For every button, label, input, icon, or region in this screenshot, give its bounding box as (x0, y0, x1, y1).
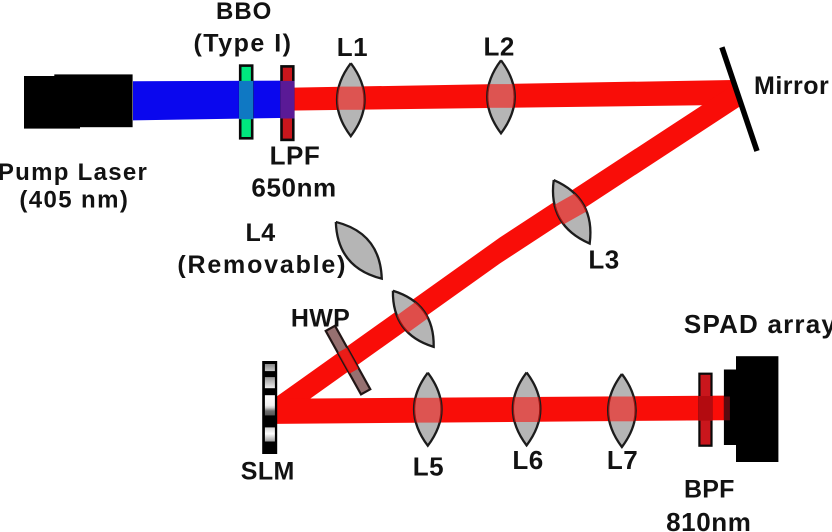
wire: blue pump beam (133, 81, 287, 121)
BBO crystal (239, 66, 253, 139)
svg-text:(Type I): (Type I) (193, 30, 292, 58)
svg-text:810nm: 810nm (666, 507, 751, 532)
mirror (722, 47, 757, 151)
lens L3 (541, 173, 603, 251)
svg-text:(405 nm): (405 nm) (19, 187, 129, 214)
svg-text:Pump Laser: Pump Laser (0, 159, 148, 186)
svg-text:L5: L5 (413, 451, 444, 481)
svg-text:L3: L3 (588, 244, 619, 274)
lens L2 (486, 60, 516, 133)
wire: red diagonal beam Mirror to SLM (277, 84, 742, 422)
BPF filter (698, 374, 712, 446)
svg-text:BPF: BPF (684, 476, 735, 504)
lens L6 (512, 372, 542, 445)
lens L1 (336, 63, 366, 136)
svg-text:HWP: HWP (291, 305, 350, 333)
LPF filter (280, 66, 294, 139)
svg-text:(Removable): (Removable) (177, 251, 347, 279)
svg-text:L2: L2 (484, 32, 515, 62)
svg-text:Mirror: Mirror (754, 72, 829, 100)
lens L5 (413, 373, 443, 446)
svg-text:SPAD array: SPAD array (684, 309, 832, 339)
lens L4 position (on beam) (381, 282, 445, 355)
wire: red beam SLM to SPAD array (276, 396, 724, 424)
svg-text:LPF: LPF (270, 141, 321, 171)
HWP half-wave plate (326, 326, 371, 395)
svg-text:L4: L4 (246, 219, 276, 247)
lens L4 removable (off beam) (325, 213, 392, 287)
svg-text:L1: L1 (337, 32, 368, 62)
svg-text:L7: L7 (607, 445, 638, 475)
svg-text:BBO: BBO (216, 0, 272, 25)
SLM spatial light modulator (262, 361, 277, 454)
svg-text:SLM: SLM (241, 457, 295, 485)
SPAD array detector (724, 356, 779, 462)
lens L7 (607, 374, 637, 447)
svg-text:L6: L6 (512, 445, 543, 475)
wire: red beam LPF to Mirror (287, 80, 741, 111)
pump laser box (24, 74, 133, 128)
svg-text:650nm: 650nm (251, 173, 336, 203)
